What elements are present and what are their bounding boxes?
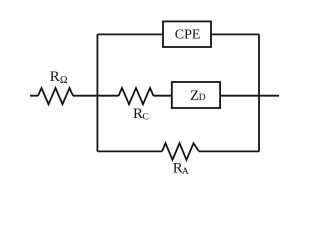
wire: top branch left segment	[97, 33, 163, 35]
svg-text:RΩ: RΩ	[50, 69, 68, 86]
svg-text:CPE: CPE	[175, 28, 201, 43]
wire: R_Omega to left rail and to R_C	[73, 95, 119, 97]
svg-text:RA: RA	[173, 160, 189, 177]
wire: bottom branch right segment	[199, 150, 259, 152]
wire: input lead left	[30, 95, 38, 97]
wire: top branch right segment	[211, 33, 259, 35]
resistor R2 (R_C) zigzag	[119, 88, 154, 104]
wire: R_C to Z_D box	[154, 95, 172, 97]
CPE element box	[163, 21, 211, 47]
wire: bottom branch left segment	[97, 150, 162, 152]
node: right rail	[258, 34, 260, 151]
resistor R3 (R_A) zigzag	[162, 143, 199, 160]
node: left rail	[96, 34, 98, 151]
wire: Z_D box to right rail	[220, 95, 259, 97]
resistor R1 (R_Omega) zigzag	[38, 88, 73, 104]
wire: output lead right	[259, 95, 279, 97]
Z_D element box	[172, 82, 220, 108]
svg-text:RC: RC	[133, 106, 149, 123]
